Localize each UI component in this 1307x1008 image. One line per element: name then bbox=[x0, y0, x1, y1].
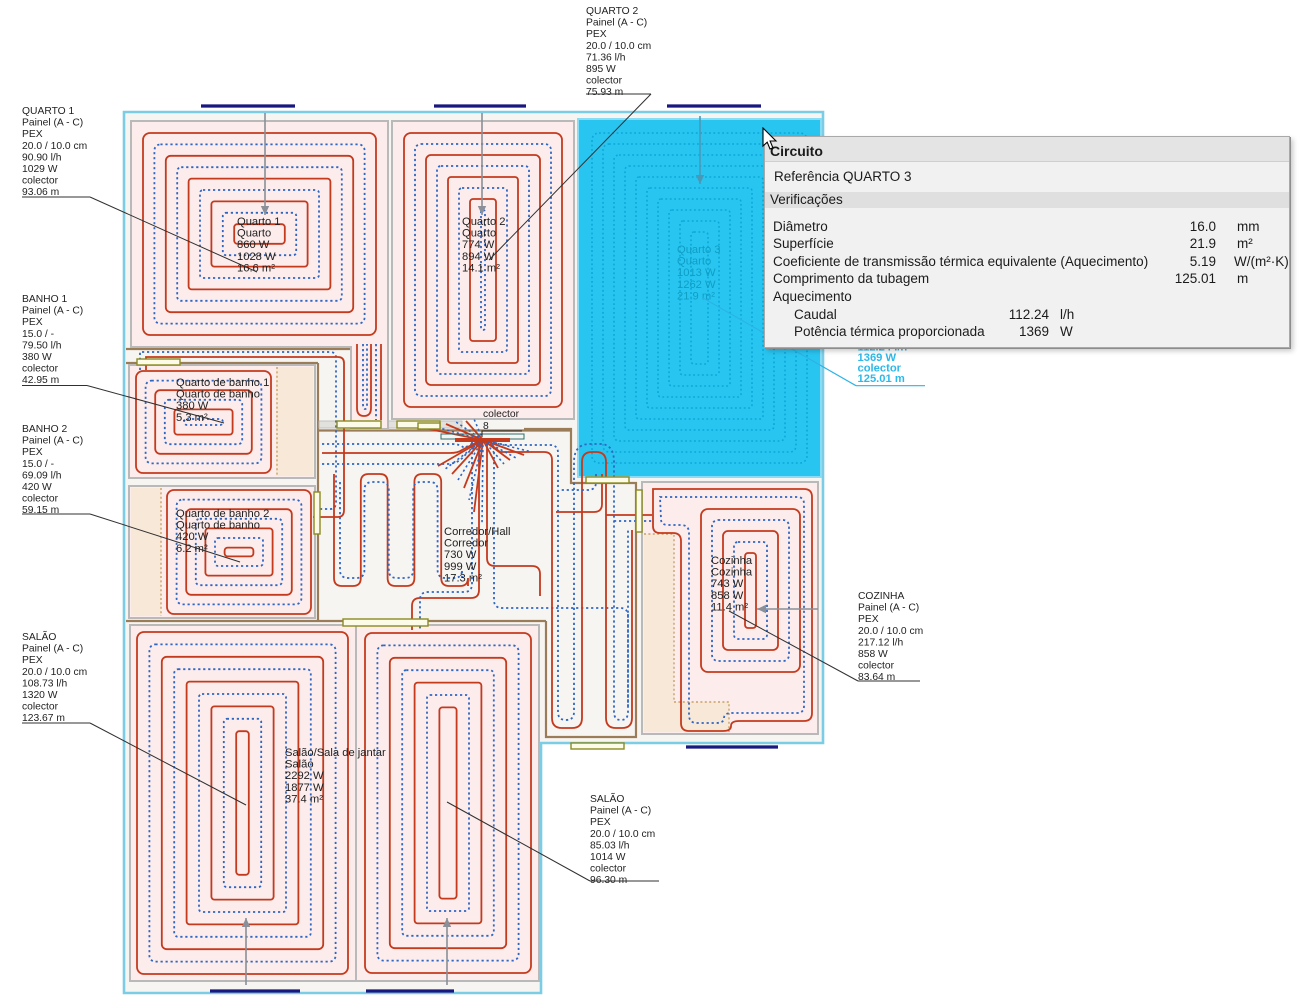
svg-text:858 W: 858 W bbox=[711, 590, 744, 602]
svg-text:90.90 l/h: 90.90 l/h bbox=[22, 152, 62, 163]
corridor serpentine right bbox=[490, 442, 632, 728]
svg-text:8: 8 bbox=[483, 421, 489, 432]
svg-text:59.15 m: 59.15 m bbox=[22, 505, 59, 516]
svg-text:21.9 m²: 21.9 m² bbox=[677, 290, 715, 302]
room Cozinha bbox=[642, 482, 818, 734]
svg-text:420 W: 420 W bbox=[22, 482, 52, 493]
collector fan bbox=[424, 419, 532, 525]
svg-text:6.2 m²: 6.2 m² bbox=[176, 543, 208, 555]
svg-text:PEX: PEX bbox=[586, 29, 607, 40]
flow arrow quarto2 bbox=[478, 113, 486, 215]
door D3 bbox=[397, 421, 440, 428]
mouse cursor bbox=[762, 127, 784, 153]
corridor pipe chase (quarto1 to serpentine) bbox=[140, 352, 344, 517]
svg-text:1877 W: 1877 W bbox=[285, 782, 324, 794]
svg-text:42.95 m: 42.95 m bbox=[22, 375, 59, 386]
svg-text:colector: colector bbox=[22, 494, 59, 505]
window W4 bottom bbox=[210, 989, 300, 992]
svg-text:79.50 l/h: 79.50 l/h bbox=[22, 340, 62, 351]
room Salao (two circuits) bbox=[130, 625, 539, 981]
svg-text:Quarto 1: Quarto 1 bbox=[237, 216, 281, 228]
wall quarto1 bottom bbox=[126, 348, 351, 350]
room Quarto 2 bbox=[392, 121, 574, 419]
wall banho1 top bbox=[126, 362, 318, 364]
door D9 bottom bbox=[571, 743, 624, 749]
svg-text:colector: colector bbox=[858, 661, 895, 672]
window W5 bottom bbox=[366, 989, 454, 992]
svg-text:Corredor/Hall: Corredor/Hall bbox=[444, 526, 511, 538]
svg-text:743 W: 743 W bbox=[711, 578, 744, 590]
svg-text:1262 W: 1262 W bbox=[677, 279, 716, 291]
wall salao top bbox=[126, 620, 546, 622]
flow arrow cozinha bbox=[757, 605, 818, 613]
svg-text:Painel (A - C): Painel (A - C) bbox=[858, 603, 919, 614]
svg-text:20.0 / 10.0 cm: 20.0 / 10.0 cm bbox=[22, 141, 87, 152]
svg-text:20.0 / 10.0 cm: 20.0 / 10.0 cm bbox=[22, 667, 87, 678]
callout SALAO bottom bbox=[447, 792, 659, 886]
svg-text:PEX: PEX bbox=[858, 614, 879, 625]
flow arrow quarto3 bbox=[696, 116, 704, 184]
svg-text:1013 W: 1013 W bbox=[677, 267, 716, 279]
svg-text:20.0 / 10.0 cm: 20.0 / 10.0 cm bbox=[590, 829, 655, 840]
svg-text:COZINHA: COZINHA bbox=[858, 591, 904, 602]
svg-text:Painel (A - C): Painel (A - C) bbox=[22, 306, 83, 317]
svg-text:774 W: 774 W bbox=[462, 239, 495, 251]
corridor middle drops from collector bbox=[412, 442, 628, 706]
svg-text:colector: colector bbox=[22, 702, 59, 713]
corridor bundle to collector bbox=[322, 439, 482, 464]
window W1 top bbox=[201, 104, 295, 107]
svg-text:380 W: 380 W bbox=[22, 352, 52, 363]
room Banho 1 bbox=[129, 365, 315, 478]
corridor serpentine left bbox=[334, 474, 468, 586]
svg-text:1320 W: 1320 W bbox=[22, 690, 58, 701]
svg-text:858 W: 858 W bbox=[858, 649, 888, 660]
svg-text:895 W: 895 W bbox=[586, 64, 616, 75]
svg-text:QUARTO 2: QUARTO 2 bbox=[586, 6, 639, 17]
room label Banho 1 bbox=[176, 377, 269, 424]
door D1 bbox=[137, 359, 180, 365]
svg-text:PEX: PEX bbox=[22, 655, 43, 666]
flow arrow salao left bbox=[242, 918, 250, 985]
door D4 collector bbox=[418, 423, 440, 429]
svg-text:730 W: 730 W bbox=[444, 549, 477, 561]
room Quarto 1 (L-shaped) bbox=[131, 121, 388, 429]
svg-text:SALÃO: SALÃO bbox=[22, 630, 56, 643]
door D2 bbox=[337, 421, 381, 428]
svg-text:SALÃO: SALÃO bbox=[590, 792, 624, 805]
svg-text:860 W: 860 W bbox=[237, 239, 270, 251]
wall under quarto2 doors bbox=[319, 421, 572, 431]
window W6 kitchen bottom bbox=[686, 745, 778, 748]
svg-text:Quarto de banho 2: Quarto de banho 2 bbox=[176, 508, 269, 520]
svg-text:15.0 / -: 15.0 / - bbox=[22, 329, 54, 340]
callout QUARTO 3 (cyan) bbox=[703, 298, 925, 386]
svg-text:Quarto 3: Quarto 3 bbox=[677, 244, 721, 256]
door D5 banho2 bbox=[314, 492, 320, 534]
cozinha connection through door bbox=[606, 515, 652, 521]
svg-text:QUARTO 1: QUARTO 1 bbox=[22, 106, 75, 117]
svg-text:BANHO 2: BANHO 2 bbox=[22, 424, 67, 435]
svg-text:69.09 l/h: 69.09 l/h bbox=[22, 470, 62, 481]
tooltip panel Circuito bbox=[764, 136, 1290, 348]
room label Corredor bbox=[444, 526, 511, 584]
flow arrow salao right bbox=[443, 918, 451, 985]
callout BANHO 2 bbox=[22, 424, 240, 562]
svg-text:Cozinha: Cozinha bbox=[711, 567, 753, 579]
room label Quarto 3 bbox=[677, 244, 721, 302]
svg-text:37.4 m²: 37.4 m² bbox=[285, 793, 323, 805]
svg-text:20.0 / 10.0 cm: 20.0 / 10.0 cm bbox=[858, 626, 923, 637]
svg-text:85.03 l/h: 85.03 l/h bbox=[590, 840, 630, 851]
svg-text:Painel (A - C): Painel (A - C) bbox=[22, 644, 83, 655]
svg-text:1029 W: 1029 W bbox=[22, 164, 58, 175]
svg-text:PEX: PEX bbox=[22, 447, 43, 458]
svg-text:Quarto de banho 1: Quarto de banho 1 bbox=[176, 377, 269, 389]
svg-text:Quarto: Quarto bbox=[462, 228, 496, 240]
svg-text:colector: colector bbox=[586, 76, 623, 87]
svg-text:Quarto: Quarto bbox=[677, 256, 711, 268]
svg-text:colector: colector bbox=[483, 409, 520, 420]
callout QUARTO 1 bbox=[22, 106, 257, 272]
svg-text:1028 W: 1028 W bbox=[237, 251, 276, 263]
svg-text:17.3 m²: 17.3 m² bbox=[444, 572, 482, 584]
wall banhos right bbox=[317, 363, 319, 621]
quarto3 connection drop bbox=[556, 474, 602, 512]
svg-text:108.73 l/h: 108.73 l/h bbox=[22, 678, 68, 689]
callout BANHO 1 bbox=[22, 294, 224, 423]
svg-text:PEX: PEX bbox=[22, 129, 43, 140]
plan outline (outer wall) bbox=[124, 112, 823, 993]
collector label bracket bbox=[482, 431, 522, 437]
svg-text:20.0 / 10.0 cm: 20.0 / 10.0 cm bbox=[586, 41, 651, 52]
svg-text:BANHO 1: BANHO 1 bbox=[22, 294, 67, 305]
svg-text:999 W: 999 W bbox=[444, 561, 477, 573]
svg-text:colector: colector bbox=[22, 364, 59, 375]
svg-text:75.93 m: 75.93 m bbox=[586, 87, 623, 98]
svg-text:125.01 m: 125.01 m bbox=[858, 373, 905, 385]
svg-text:83.64 m: 83.64 m bbox=[858, 672, 895, 683]
room label Banho 2 bbox=[176, 508, 269, 555]
svg-text:Corredor: Corredor bbox=[444, 538, 488, 550]
room label Quarto 2 bbox=[462, 216, 506, 274]
svg-text:1014 W: 1014 W bbox=[590, 852, 626, 863]
room Quarto 3 (selected, highlighted) bbox=[578, 119, 821, 477]
callout SALAO left bbox=[22, 630, 246, 805]
svg-text:2292 W: 2292 W bbox=[285, 770, 324, 782]
window W3 top bbox=[667, 104, 761, 107]
svg-text:14.1 m²: 14.1 m² bbox=[462, 262, 500, 274]
svg-text:colector: colector bbox=[22, 176, 59, 187]
room label Quarto 1 bbox=[237, 216, 281, 274]
quarto1 extension pipes bbox=[357, 344, 371, 416]
svg-text:Quarto 2: Quarto 2 bbox=[462, 216, 506, 228]
svg-text:colector: colector bbox=[590, 864, 627, 875]
svg-text:420 W: 420 W bbox=[176, 531, 209, 543]
svg-text:Quarto de banho: Quarto de banho bbox=[176, 389, 260, 401]
svg-text:71.36 l/h: 71.36 l/h bbox=[586, 52, 626, 63]
svg-text:Salão/Sala de jantar: Salão/Sala de jantar bbox=[285, 747, 386, 759]
svg-text:380 W: 380 W bbox=[176, 400, 209, 412]
svg-text:Quarto de banho: Quarto de banho bbox=[176, 520, 260, 532]
svg-text:Painel (A - C): Painel (A - C) bbox=[590, 806, 651, 817]
wall corridor right-bottom bbox=[524, 429, 636, 737]
callout QUARTO 2 bbox=[489, 6, 651, 260]
svg-text:Painel (A - C): Painel (A - C) bbox=[22, 118, 83, 129]
callout COZINHA bbox=[729, 591, 923, 683]
svg-text:Salão: Salão bbox=[285, 759, 314, 771]
door D8 cozinha bbox=[636, 490, 642, 532]
door D6 salao bbox=[343, 619, 428, 626]
room label Cozinha bbox=[711, 555, 753, 613]
svg-text:217.12 l/h: 217.12 l/h bbox=[858, 637, 904, 648]
svg-text:PEX: PEX bbox=[22, 317, 43, 328]
svg-text:894 W: 894 W bbox=[462, 251, 495, 263]
svg-text:Quarto: Quarto bbox=[237, 228, 271, 240]
flow arrow quarto1 bbox=[261, 113, 269, 215]
collector label bbox=[483, 409, 520, 432]
svg-text:15.0 / -: 15.0 / - bbox=[22, 459, 54, 470]
window W2 top bbox=[434, 104, 526, 107]
svg-text:Cozinha: Cozinha bbox=[711, 555, 753, 567]
room label Salao bbox=[285, 747, 386, 805]
svg-text:PEX: PEX bbox=[590, 817, 611, 828]
svg-text:16.6 m²: 16.6 m² bbox=[237, 262, 275, 274]
svg-text:Painel (A - C): Painel (A - C) bbox=[586, 18, 647, 29]
door D7 quarto3 bbox=[586, 477, 629, 483]
svg-text:Painel (A - C): Painel (A - C) bbox=[22, 436, 83, 447]
room Banho 2 bbox=[129, 486, 315, 618]
